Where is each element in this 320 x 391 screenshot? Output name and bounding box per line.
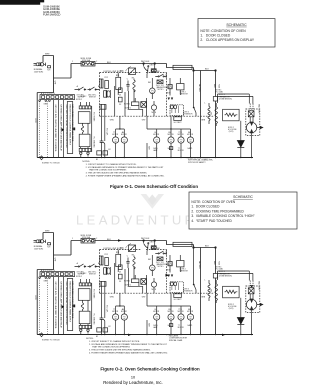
wire: line run x200 S2 bbox=[200, 248, 202, 335]
svg-text:SPECIAL CHAR.: SPECIAL CHAR. bbox=[169, 339, 183, 342]
relay RY2 cook relay S2 bbox=[126, 244, 136, 252]
svg-text:1. DOOR CLOSED: 1. DOOR CLOSED bbox=[200, 33, 230, 37]
motor M2 AH S1 bbox=[121, 129, 127, 158]
wire: plug top run S2 bbox=[43, 233, 71, 256]
wire: relay logic links S1 bbox=[115, 86, 147, 116]
svg-text:D2: D2 bbox=[119, 104, 121, 106]
wire: filament dashed tails S1 bbox=[250, 104, 253, 111]
relay RY2 cook relay S1 bbox=[126, 67, 136, 75]
switch S4 cook switch arm S2 bbox=[144, 241, 149, 256]
relay RY1 coil box S1 bbox=[124, 102, 139, 106]
thermistor TH1 S1 bbox=[213, 94, 232, 101]
svg-text:NOTE: NOTE bbox=[152, 289, 156, 291]
svg-text:NOTE 4: NOTE 4 bbox=[180, 91, 186, 93]
svg-text:3. THIS LETTER GUIDES USE THE: 3. THIS LETTER GUIDES USE THE SPECIFIED … bbox=[89, 349, 151, 352]
motor M3 OL S1 bbox=[154, 129, 160, 158]
node: schematic condition box 1 bbox=[198, 19, 275, 47]
transformer T1 terminal row bottom S1 bbox=[79, 147, 91, 152]
control unit U1 dashed boundary S2 bbox=[100, 250, 167, 294]
wire: long dashed boundary S2 bbox=[100, 292, 215, 294]
node: motor label TT S2 bbox=[112, 309, 119, 313]
svg-text:NOTE 2: NOTE 2 bbox=[81, 273, 87, 275]
svg-text:ISTICS FOR SAFETY.: ISTICS FOR SAFETY. bbox=[188, 161, 206, 164]
inductor L2 filament winding S2 bbox=[215, 280, 218, 303]
svg-text:(OVEN SENSOR): (OVEN SENSOR) bbox=[219, 98, 232, 100]
control unit U1 dashed boundary S1 bbox=[100, 73, 167, 117]
svg-text:(RY): (RY) bbox=[120, 71, 124, 73]
svg-text:NOTE 3: NOTE 3 bbox=[219, 94, 225, 96]
thermal cutout TCO X-box S1 bbox=[157, 80, 163, 84]
svg-text:NOTE 5: NOTE 5 bbox=[158, 266, 164, 268]
svg-text:NOTE: CONDITION OF OVEN: NOTE: CONDITION OF OVEN bbox=[191, 200, 235, 204]
motor M1 TT S1 bbox=[113, 129, 119, 158]
relay RY3 label box S2 bbox=[174, 294, 183, 301]
wire: line run x193 S2 bbox=[194, 248, 197, 294]
svg-text:MOTOR: MOTOR bbox=[178, 327, 185, 329]
node: interlock labels S1 bbox=[77, 94, 97, 98]
svg-text:RY2: RY2 bbox=[105, 254, 108, 256]
node: surge block labels S1 bbox=[180, 91, 189, 95]
svg-text:SCHEM. TY. 1YE 11B: SCHEM. TY. 1YE 11B bbox=[42, 340, 60, 342]
relay RY2 contact pair S2 bbox=[104, 267, 111, 275]
node: motor lower labels S2 bbox=[153, 324, 193, 329]
svg-text:RY2: RY2 bbox=[105, 77, 108, 79]
magnetron dashed enclosure S2 bbox=[246, 286, 260, 313]
ground: dotted chassis run S1 bbox=[40, 101, 48, 157]
wire: bottom bus N S2 bbox=[37, 334, 253, 336]
node: schematic condition box 2 bbox=[189, 192, 297, 229]
wire: filament pair to magnetron S1 bbox=[218, 94, 253, 104]
thermal cutout TCO X-box S2 bbox=[157, 257, 163, 261]
svg-text:TT: TT bbox=[113, 309, 115, 311]
inductor L1 choke S2 bbox=[208, 280, 210, 301]
node: misc wire labels S1 bbox=[44, 61, 212, 161]
svg-text:RED/WHT TOUCH CONTROL PANEL IN: RED/WHT TOUCH CONTROL PANEL INPUT bbox=[69, 282, 72, 323]
svg-text:BLK: BLK bbox=[205, 68, 209, 70]
svg-text:MOTOR: MOTOR bbox=[121, 134, 128, 136]
connector CN-B tall block S1 bbox=[67, 102, 72, 154]
resistor R-MGT hatched block S1 bbox=[168, 78, 172, 96]
node: H.V. diode label S2 bbox=[228, 304, 236, 310]
connector CN-A terminal strip S1 bbox=[39, 95, 75, 102]
svg-text:D2: D2 bbox=[119, 281, 121, 283]
node: motor label OL S2 bbox=[153, 309, 160, 313]
switch S2 2nd interlock S1 bbox=[88, 87, 100, 90]
node: motor label AH S1 bbox=[121, 131, 128, 136]
node: sensor labels S2 bbox=[183, 289, 193, 293]
resistor R1 surge block S2 bbox=[177, 255, 184, 272]
fuse F3 X box in logic S2 bbox=[141, 279, 147, 285]
svg-text:Rendered by LeadVenture, Inc.: Rendered by LeadVenture, Inc. bbox=[103, 380, 162, 385]
magnetron MG1 S1 bbox=[246, 117, 256, 158]
svg-text:WHT: WHT bbox=[141, 238, 145, 240]
connector CN-C pair S2 bbox=[97, 328, 108, 332]
wire: long dashed boundary S1 bbox=[100, 115, 215, 117]
transformer T1 terminal row top S1 bbox=[79, 102, 91, 109]
svg-text:YLW: YLW bbox=[218, 84, 220, 88]
node: junction J1 S1 bbox=[143, 63, 145, 65]
node: surge block labels S2 bbox=[180, 268, 189, 272]
transformer T1 primary winding S1 bbox=[78, 112, 90, 124]
svg-text:1. DOOR CLOSED: 1. DOOR CLOSED bbox=[191, 205, 220, 209]
wire: relay logic links S2 bbox=[115, 263, 147, 293]
svg-text:THAT THE CONNECTION IS DIFFERE: THAT THE CONNECTION IS DIFFERENT. bbox=[92, 346, 131, 349]
node: components-note right 1 bbox=[185, 156, 214, 163]
relay RY3 label box S1 bbox=[174, 117, 183, 124]
node: bus junction dots S1 bbox=[101, 128, 253, 158]
svg-text:WHT: WHT bbox=[54, 258, 56, 262]
svg-text:2E4: 2E4 bbox=[210, 289, 212, 292]
svg-text:(R-21): (R-21) bbox=[229, 131, 234, 133]
node: notes block under figure O-2 bbox=[86, 338, 168, 355]
relay driver box A S2 bbox=[118, 265, 122, 279]
svg-text:MOTOR: MOTOR bbox=[178, 134, 185, 136]
node: junction J2 S1 bbox=[154, 63, 156, 65]
capacitor C1 H.V. capacitor S1 bbox=[100, 104, 109, 158]
node: harness arrow marker S2 bbox=[62, 305, 65, 309]
magnetron MG1 S2 bbox=[246, 294, 256, 335]
node: transformer labels S1 bbox=[92, 112, 95, 148]
node: bus diamond junction S2 bbox=[40, 333, 43, 337]
node: motor label AH S2 bbox=[121, 308, 128, 313]
svg-text:NOTE 3: NOTE 3 bbox=[219, 271, 225, 273]
node: junction J4 S2 bbox=[215, 247, 217, 249]
node: magnetron antenna arrow S1 bbox=[257, 126, 263, 128]
motor M7 turntable coupling S2 bbox=[151, 278, 156, 293]
fuse F2 magnetron X box S1 bbox=[248, 111, 254, 117]
svg-text:3. VARIABLE COOKING CONTROL “: 3. VARIABLE COOKING CONTROL “HIGH” bbox=[191, 214, 254, 218]
node: header model list bbox=[43, 5, 61, 17]
svg-text:H.V. TRANS: H.V. TRANS bbox=[92, 289, 95, 299]
svg-text:MOTOR: MOTOR bbox=[187, 311, 194, 313]
svg-text:2: 2 bbox=[96, 238, 97, 240]
svg-text:NOTES:: NOTES: bbox=[82, 161, 90, 163]
diode bridge dashed box S2 bbox=[170, 282, 184, 293]
node: bus junction dots S2 bbox=[101, 305, 253, 335]
svg-text:L: L bbox=[205, 102, 206, 104]
svg-text:120V 60Hz: 120V 60Hz bbox=[34, 71, 43, 73]
svg-text:MOTOR: MOTOR bbox=[178, 311, 185, 313]
relay RY1 coil box S2 bbox=[124, 279, 139, 283]
inductor L1 choke S1 bbox=[208, 103, 210, 124]
svg-text:WHT/BLU: WHT/BLU bbox=[198, 84, 200, 93]
node: motor label OL S1 bbox=[153, 132, 160, 136]
resistor R3 small block S2 bbox=[169, 324, 172, 327]
svg-text:2. COOKING TIME PROGRAMMED: 2. COOKING TIME PROGRAMMED bbox=[191, 209, 244, 213]
node: junction J3 S1 bbox=[193, 70, 195, 72]
transformer T1 secondary winding S2 bbox=[79, 311, 90, 324]
motor M5 TTM S2 bbox=[178, 306, 184, 335]
resistor R2 bleeder in box S2 bbox=[223, 286, 240, 298]
svg-text:4. POWER TRANSFORMER (PRIMARY: 4. POWER TRANSFORMER (PRIMARY) AND MAGNE… bbox=[86, 175, 165, 178]
wire: harness verticals S2 bbox=[54, 277, 64, 335]
wire: transformer side rail S2 bbox=[91, 283, 93, 329]
svg-text:E2: E2 bbox=[109, 326, 111, 328]
svg-text:2: 2 bbox=[96, 61, 97, 63]
svg-text:BLK: BLK bbox=[107, 62, 111, 64]
svg-text:NOTE 3: NOTE 3 bbox=[183, 112, 189, 114]
wire: top bus L1 S2 bbox=[71, 241, 216, 248]
svg-text:NOTE :CONDITION OF OVEN: NOTE :CONDITION OF OVEN bbox=[200, 29, 246, 33]
svg-text:ORG 2ND. INTL. RELAY CONTROL L: ORG 2ND. INTL. RELAY CONTROL LINE FEED bbox=[65, 282, 68, 326]
svg-text:SCHEMATIC: SCHEMATIC bbox=[226, 23, 247, 27]
switch S5 thermal switch S2 bbox=[155, 251, 166, 255]
svg-text:H.V. DIODE: H.V. DIODE bbox=[228, 129, 236, 131]
switch S7 door sensing box S1 bbox=[173, 65, 192, 69]
svg-text:BLK: BLK bbox=[146, 238, 150, 240]
node: junction J1 S2 bbox=[143, 240, 145, 242]
fuse F2 magnetron X box S2 bbox=[248, 288, 254, 294]
relay RY-A coil box S1 bbox=[116, 73, 121, 96]
svg-text:Figure O-1. Oven Schematic-Off: Figure O-1. Oven Schematic-Off Condition bbox=[110, 184, 198, 189]
node: sensor labels S1 bbox=[183, 112, 193, 116]
svg-text:BRN STIRRER MOTOR FAN LINE FEE: BRN STIRRER MOTOR FAN LINE FEED bbox=[71, 282, 74, 319]
svg-text:D1: D1 bbox=[119, 272, 121, 274]
fuse F1 monitor fuse 20A S2 bbox=[81, 238, 95, 243]
stirrer motor SM S2 bbox=[150, 255, 156, 276]
power plug P1 AC line S1 bbox=[34, 63, 46, 66]
svg-text:MOTOR: MOTOR bbox=[112, 134, 119, 136]
svg-text:3. THIS LETTER GUIDES USE THE: 3. THIS LETTER GUIDES USE THE SPECIFIED … bbox=[86, 172, 148, 175]
resistor R3 small block S1 bbox=[169, 147, 172, 150]
node: LeadVenture watermark logo bbox=[141, 194, 164, 209]
svg-text:120V: 120V bbox=[34, 118, 36, 123]
motor M1 TT S2 bbox=[113, 306, 119, 335]
resistor R1 surge block S1 bbox=[177, 78, 184, 95]
svg-text:TT: TT bbox=[178, 325, 180, 327]
svg-text:SCHEMATIC: SCHEMATIC bbox=[233, 195, 253, 199]
motor M4 FM S2 bbox=[168, 306, 174, 335]
fan motor FM box S1 bbox=[151, 64, 156, 73]
svg-text:FIL. WINDING: FIL. WINDING bbox=[92, 137, 94, 149]
diode D2 D3 pair S2 bbox=[168, 275, 174, 278]
node: interlock labels S2 bbox=[77, 271, 97, 275]
capacitor C2 S1 bbox=[126, 81, 129, 92]
svg-text:MGT: MGT bbox=[167, 270, 171, 272]
svg-text:NOTE 1: NOTE 1 bbox=[125, 285, 131, 287]
svg-text:WHT/RED OVEN LAMP SWITCH LINE: WHT/RED OVEN LAMP SWITCH LINE AND RELAY bbox=[59, 105, 62, 152]
svg-text:H.V. CAP.: H.V. CAP. bbox=[105, 305, 108, 313]
wire: harness verticals S1 bbox=[54, 100, 64, 158]
svg-text:GRY 1ST. INTL. SWITCH LINE FEE: GRY 1ST. INTL. SWITCH LINE FEED TO CONTR… bbox=[54, 282, 56, 330]
svg-text:1. CIRCUIT SUBJECT TO CHANGE: 1. CIRCUIT SUBJECT TO CHANGE WITHOUT NOT… bbox=[86, 163, 137, 166]
svg-text:WHT: WHT bbox=[148, 146, 150, 150]
svg-text:MOTOR: MOTOR bbox=[153, 311, 160, 313]
svg-text:H.V. RECT.: H.V. RECT. bbox=[174, 122, 183, 124]
magnetron dashed enclosure S1 bbox=[246, 109, 260, 136]
wire: line run x215 S1 bbox=[215, 71, 217, 158]
resistor R2 bleeder in box S1 bbox=[223, 109, 240, 121]
wire: top bus L1 S1 bbox=[71, 64, 216, 71]
diode D6 H.V. rectifier S2 bbox=[237, 298, 244, 335]
switch S5 thermal switch S1 bbox=[155, 74, 166, 78]
capacitor C-NF noise filter S1 bbox=[47, 66, 51, 72]
switch S6 sensor switch S1 bbox=[193, 107, 196, 113]
svg-text:2E4: 2E4 bbox=[210, 112, 212, 115]
transformer T1 primary winding S2 bbox=[78, 289, 90, 301]
svg-text:H.V. CAP.: H.V. CAP. bbox=[105, 128, 108, 136]
svg-text:E1: E1 bbox=[96, 159, 98, 161]
svg-text:NOTE: NOTE bbox=[152, 112, 156, 114]
svg-text:RY1: RY1 bbox=[116, 75, 119, 77]
wire: filament pair to magnetron S2 bbox=[218, 271, 253, 281]
svg-text:10: 10 bbox=[131, 375, 135, 379]
node: motor label TTM S2 bbox=[178, 309, 185, 313]
motor M6 DM S1 bbox=[187, 129, 193, 158]
wire: neutral outline S2 bbox=[37, 255, 53, 335]
svg-text:NOTE 2: NOTE 2 bbox=[76, 276, 82, 278]
svg-text:SWITCH: SWITCH bbox=[89, 273, 96, 275]
wire: line run x215 S2 bbox=[215, 248, 217, 335]
svg-text:A B C D E F G: A B C D E F G bbox=[41, 269, 55, 272]
node: motor label TTM S1 bbox=[178, 132, 185, 136]
wire: line run x200 S1 bbox=[200, 71, 202, 158]
fan motor FM box S2 bbox=[151, 241, 156, 250]
svg-text:125V 20A: 125V 20A bbox=[82, 236, 91, 239]
relay driver box A S1 bbox=[118, 88, 122, 102]
switch S2 2nd interlock S2 bbox=[88, 264, 100, 267]
svg-text:(R-21): (R-21) bbox=[229, 308, 234, 310]
thermistor TH1 S2 bbox=[213, 271, 232, 278]
svg-text:WHT: WHT bbox=[141, 61, 145, 63]
svg-text:120V 60Hz: 120V 60Hz bbox=[34, 248, 43, 250]
wire: transformer side rail S1 bbox=[91, 106, 93, 152]
svg-text:4. POWER TRANSFORMER (PRIMARY: 4. POWER TRANSFORMER (PRIMARY) AND MAGNE… bbox=[89, 352, 168, 355]
node: transformer labels S2 bbox=[92, 289, 95, 325]
fuse F3 X box in logic S1 bbox=[141, 102, 147, 108]
node: TCO labels S2 bbox=[156, 262, 168, 268]
node: motor label DM S1 bbox=[187, 132, 194, 136]
svg-text:OL: OL bbox=[154, 309, 156, 311]
svg-text:L: L bbox=[205, 279, 206, 281]
svg-text:H.V. RECT.: H.V. RECT. bbox=[174, 299, 183, 301]
capacitor C1 H.V. capacitor S2 bbox=[100, 281, 109, 335]
svg-text:WHT: WHT bbox=[45, 231, 50, 233]
svg-text:ORG: ORG bbox=[150, 242, 155, 244]
connector CN-C pair S1 bbox=[97, 151, 108, 155]
svg-text:E2: E2 bbox=[109, 149, 111, 151]
transformer T1 terminal row top S2 bbox=[79, 279, 91, 286]
relay RY1 contact block S2 bbox=[100, 256, 109, 266]
svg-text:MOTOR: MOTOR bbox=[168, 134, 175, 136]
motor M3 OL S2 bbox=[154, 306, 160, 335]
svg-text:GRY 1ST. INTL. SWITCH LINE FEE: GRY 1ST. INTL. SWITCH LINE FEED TO CONTR… bbox=[54, 105, 56, 153]
node: junction J4 S1 bbox=[215, 70, 217, 72]
switch S7 door sensing box S2 bbox=[173, 242, 192, 246]
svg-text:Figure O-2. Oven Schematic-Coo: Figure O-2. Oven Schematic-Cooking Condi… bbox=[100, 366, 200, 371]
svg-text:4. “START” PAD TOUCHED: 4. “START” PAD TOUCHED bbox=[191, 219, 232, 223]
node: magnetron antenna arrow S2 bbox=[257, 303, 263, 305]
svg-text:1. CIRCUIT SUBJECT TO CHANGE: 1. CIRCUIT SUBJECT TO CHANGE WITHOUT NOT… bbox=[89, 340, 140, 343]
svg-text:E1: E1 bbox=[96, 336, 98, 338]
diode bridge dashed box S1 bbox=[170, 105, 184, 116]
node: misc wire labels S2 bbox=[44, 238, 212, 338]
wire: motor feeders S2 bbox=[116, 293, 191, 334]
node: motor label TT S1 bbox=[112, 132, 119, 136]
node: motor label DM S2 bbox=[187, 309, 194, 313]
svg-text:1: 1 bbox=[72, 61, 73, 63]
node: vertical wire labels S2 bbox=[198, 261, 219, 270]
svg-text:(OVEN SENSOR): (OVEN SENSOR) bbox=[219, 275, 232, 277]
wire: filament dashed tails S2 bbox=[250, 281, 253, 288]
node: header black banner bbox=[0, 0, 44, 5]
motor M6 DM S2 bbox=[187, 306, 193, 335]
node: bus diamond junction S1 bbox=[40, 156, 43, 160]
svg-text:NOTES:: NOTES: bbox=[86, 338, 94, 340]
svg-text:1: 1 bbox=[72, 238, 73, 240]
svg-text:NOTE 4: NOTE 4 bbox=[216, 90, 222, 92]
svg-text:BRN STIRRER MOTOR FAN LINE FEE: BRN STIRRER MOTOR FAN LINE FEED bbox=[71, 105, 74, 142]
svg-text:MGT: MGT bbox=[167, 93, 171, 95]
wire: line run x193 S1 bbox=[194, 71, 197, 117]
connector CN-B tall block S2 bbox=[67, 279, 72, 331]
power plug P1 AC line S2 bbox=[34, 240, 46, 243]
relay RY1 contact block S1 bbox=[100, 79, 109, 89]
transformer T1 secondary winding S1 bbox=[79, 134, 90, 147]
diode D2 D3 pair S1 bbox=[168, 98, 174, 101]
svg-text:MOTOR: MOTOR bbox=[112, 311, 119, 313]
wire: motor feeders S1 bbox=[116, 116, 191, 157]
svg-text:NOTE 3: NOTE 3 bbox=[183, 289, 189, 291]
switch S4 cook switch arm S1 bbox=[144, 64, 149, 79]
node: harness tap block S2 bbox=[73, 305, 75, 308]
svg-text:SWITCH: SWITCH bbox=[89, 96, 96, 98]
svg-text:TT: TT bbox=[113, 132, 115, 134]
stirrer motor SM S1 bbox=[150, 78, 156, 99]
svg-text:120V: 120V bbox=[34, 295, 36, 300]
svg-text:OL: OL bbox=[154, 132, 156, 134]
svg-text:SCHEM. TY. 1YE 11B: SCHEM. TY. 1YE 11B bbox=[42, 163, 60, 165]
node: motor label FM S2 bbox=[168, 309, 175, 313]
svg-text:FUM-1AMDCD: FUM-1AMDCD bbox=[43, 13, 61, 17]
svg-text:MOTOR: MOTOR bbox=[168, 311, 175, 313]
svg-text:RY1: RY1 bbox=[116, 252, 119, 254]
ground: dotted chassis run S2 bbox=[40, 278, 48, 334]
svg-text:NOTE 5: NOTE 5 bbox=[158, 89, 164, 91]
svg-text:ORG 2ND. INTL. RELAY CONTROL L: ORG 2ND. INTL. RELAY CONTROL LINE FEED bbox=[65, 105, 68, 149]
svg-text:NOTE 1: NOTE 1 bbox=[125, 108, 131, 110]
relay RY-A coil box S2 bbox=[116, 250, 121, 273]
svg-text:150°C TCO: 150°C TCO bbox=[156, 85, 165, 87]
motor M2 AH S2 bbox=[121, 306, 127, 335]
svg-text:TT: TT bbox=[178, 148, 180, 150]
switch S1 1st interlock S2 bbox=[75, 264, 87, 267]
connector CN-A terminal strip S2 bbox=[39, 272, 75, 279]
svg-text:RED/WHT TOUCH CONTROL PANEL IN: RED/WHT TOUCH CONTROL PANEL INPUT bbox=[69, 105, 72, 146]
motor M5 TTM S1 bbox=[178, 129, 184, 158]
node: harness labels S1 bbox=[54, 105, 74, 153]
svg-text:NOTE 2: NOTE 2 bbox=[81, 96, 87, 98]
relay RY2 contact pair S1 bbox=[104, 90, 111, 98]
svg-text:D1: D1 bbox=[119, 95, 121, 97]
svg-text:MOTOR: MOTOR bbox=[178, 150, 185, 152]
svg-text:A B C D E F G: A B C D E F G bbox=[41, 92, 55, 95]
node: transformer bottom terminals S2 bbox=[80, 329, 90, 335]
switch S1 1st interlock S1 bbox=[75, 87, 87, 90]
inductor RY2 coil S2 bbox=[133, 256, 135, 270]
node: junction J2 S2 bbox=[154, 240, 156, 242]
wire: bottom bus N S1 bbox=[37, 157, 253, 159]
wire: plug top run S1 bbox=[43, 56, 71, 79]
switch S6 sensor switch S2 bbox=[193, 284, 196, 290]
svg-text:2. CLOCK APPEARS ON DISPLAY: 2. CLOCK APPEARS ON DISPLAY bbox=[200, 38, 254, 42]
node: harness arrow marker S1 bbox=[62, 128, 65, 132]
node: TCO labels S1 bbox=[156, 85, 168, 91]
svg-text:MOTOR: MOTOR bbox=[121, 311, 128, 313]
node: harness labels S2 bbox=[54, 282, 74, 330]
node: energized path arrows S2 bbox=[118, 239, 253, 336]
svg-text:MOTOR: MOTOR bbox=[187, 134, 194, 136]
